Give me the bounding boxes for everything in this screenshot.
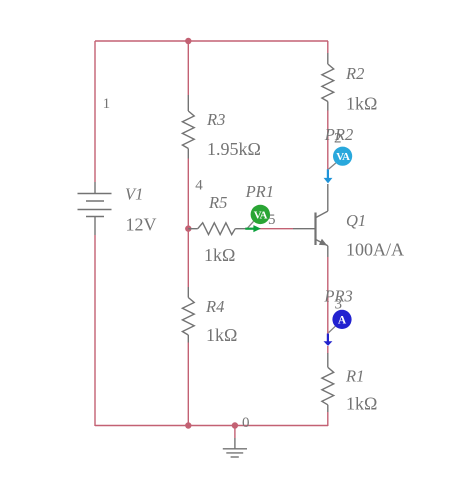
svg-text:V1: V1 xyxy=(125,185,143,204)
probe PR3 xyxy=(324,310,352,346)
junction node 0 ground xyxy=(232,422,238,428)
wire left vertical upper (net 1) xyxy=(94,41,96,182)
svg-text:1kΩ: 1kΩ xyxy=(206,325,237,345)
svg-text:1kΩ: 1kΩ xyxy=(346,394,377,414)
svg-text:R4: R4 xyxy=(205,297,224,316)
wire right vertical top (net 2 into R2) xyxy=(327,41,329,53)
wire PR3 tip to R1 lead xyxy=(327,346,329,354)
svg-text:1.95kΩ: 1.95kΩ xyxy=(207,139,261,159)
svg-text:1: 1 xyxy=(103,96,111,112)
transistor Q1 xyxy=(293,184,328,257)
junction node 4 xyxy=(185,225,191,231)
svg-text:PR2: PR2 xyxy=(324,125,353,144)
wire middle vertical R3 to node 4 xyxy=(187,159,189,229)
probe PR1 xyxy=(245,205,270,233)
svg-text:VA: VA xyxy=(336,151,350,163)
wire node 5: PR1 arrow to Q1 base xyxy=(258,228,293,230)
svg-text:Q1: Q1 xyxy=(346,211,366,230)
wire top horizontal net 1 to net 2 xyxy=(95,40,328,42)
svg-text:R2: R2 xyxy=(345,64,364,83)
svg-text:100A/A: 100A/A xyxy=(346,240,404,260)
svg-text:1kΩ: 1kΩ xyxy=(204,245,235,265)
svg-text:12V: 12V xyxy=(126,214,157,234)
resistor R5 horizontal xyxy=(188,223,252,235)
wire middle vertical upper (net 1 to R3) xyxy=(187,41,189,95)
svg-text:PR1: PR1 xyxy=(245,182,274,201)
wire middle vertical R4 to net 0 xyxy=(187,343,189,427)
resistor R1 xyxy=(322,353,334,412)
wire left vertical lower (net 0) xyxy=(94,235,96,426)
svg-text:PR3: PR3 xyxy=(323,287,352,306)
resistor R2 xyxy=(322,53,334,111)
junction node 0 left xyxy=(185,422,191,428)
wire R2 to PR2 arrow xyxy=(327,111,329,171)
svg-text:R5: R5 xyxy=(208,193,227,212)
svg-text:R1: R1 xyxy=(345,367,364,386)
resistor R4 xyxy=(182,287,194,343)
svg-text:1kΩ: 1kΩ xyxy=(346,94,377,114)
ground xyxy=(223,438,247,457)
wire middle vertical node 4 to R4 xyxy=(187,229,189,287)
junction node 1/2 top xyxy=(185,38,191,44)
wire Q1 emitter to PR3 arrow xyxy=(327,257,329,334)
svg-text:R3: R3 xyxy=(206,110,225,129)
resistor R3 xyxy=(182,95,194,159)
wire ground stub xyxy=(234,426,236,439)
battery V1 xyxy=(78,182,112,235)
wire bottom horizontal net 0 xyxy=(95,425,328,427)
probe PR2 xyxy=(324,147,353,184)
svg-text:4: 4 xyxy=(195,177,203,193)
svg-text:VA: VA xyxy=(254,209,268,221)
svg-text:A: A xyxy=(338,315,347,327)
wire R1 to bottom net 0 xyxy=(327,412,329,426)
svg-text:0: 0 xyxy=(242,415,250,431)
